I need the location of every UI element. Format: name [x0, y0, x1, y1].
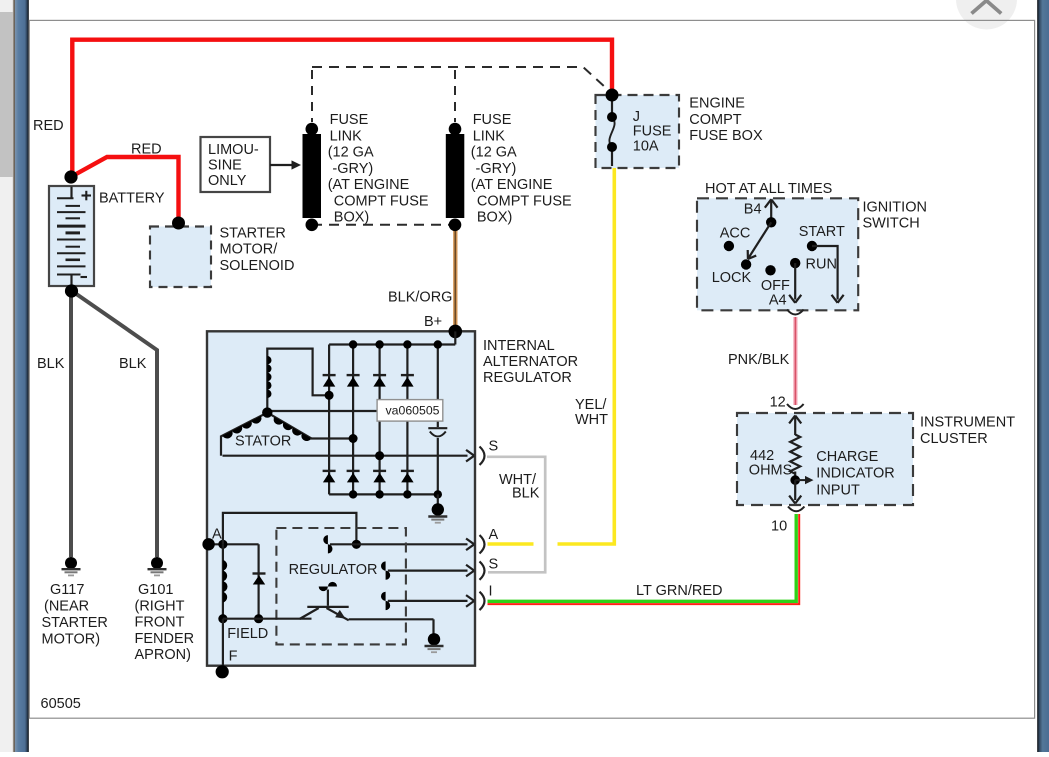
svg-text:COMPT: COMPT — [689, 112, 742, 128]
svg-text:(12 GA: (12 GA — [328, 145, 374, 161]
svg-text:I: I — [489, 584, 493, 600]
svg-text:FRONT: FRONT — [135, 615, 185, 631]
svg-text:IGNITION: IGNITION — [863, 199, 927, 215]
svg-text:10: 10 — [771, 519, 787, 535]
svg-text:FUSE: FUSE — [633, 124, 672, 140]
svg-text:INTERNAL: INTERNAL — [483, 338, 555, 354]
svg-text:ACC: ACC — [720, 226, 751, 242]
svg-text:YEL/: YEL/ — [575, 397, 607, 413]
svg-text:60505: 60505 — [41, 696, 81, 712]
svg-text:MOTOR/: MOTOR/ — [220, 242, 279, 258]
svg-text:STATOR: STATOR — [235, 434, 291, 450]
svg-text:(AT ENGINE: (AT ENGINE — [328, 177, 410, 193]
svg-text:LINK: LINK — [473, 128, 506, 144]
svg-text:BOX): BOX) — [477, 210, 512, 226]
svg-text:HOT AT ALL TIMES: HOT AT ALL TIMES — [705, 181, 832, 197]
svg-text:WHT: WHT — [575, 412, 608, 428]
svg-text:BLK/ORG: BLK/ORG — [388, 290, 452, 306]
svg-text:10A: 10A — [633, 138, 659, 154]
svg-text:BLK: BLK — [119, 356, 147, 372]
svg-text:RUN: RUN — [806, 257, 837, 273]
svg-text:STARTER: STARTER — [42, 615, 108, 631]
svg-text:SWITCH: SWITCH — [863, 216, 920, 232]
svg-text:STARTER: STARTER — [220, 226, 286, 242]
svg-text:FIELD: FIELD — [227, 626, 268, 642]
svg-text:(RIGHT: (RIGHT — [135, 599, 185, 615]
svg-text:BLK: BLK — [37, 356, 65, 372]
svg-text:REGULATOR: REGULATOR — [289, 562, 378, 578]
svg-text:G101: G101 — [138, 582, 173, 598]
svg-text:ALTERNATOR: ALTERNATOR — [483, 354, 578, 370]
svg-text:FUSE BOX: FUSE BOX — [689, 128, 763, 144]
svg-text:A: A — [212, 527, 222, 543]
svg-text:RED: RED — [33, 118, 64, 134]
svg-text:BLK: BLK — [512, 486, 540, 502]
svg-text:(AT ENGINE: (AT ENGINE — [471, 177, 553, 193]
svg-text:S: S — [489, 557, 499, 573]
svg-text:REGULATOR: REGULATOR — [483, 370, 572, 386]
svg-text:BOX): BOX) — [334, 210, 369, 226]
svg-text:INDICATOR: INDICATOR — [816, 466, 894, 482]
svg-text:(NEAR: (NEAR — [44, 599, 89, 615]
svg-text:F: F — [229, 649, 238, 665]
svg-text:RED: RED — [131, 142, 162, 158]
svg-text:B4: B4 — [744, 202, 762, 218]
svg-text:CHARGE: CHARGE — [816, 449, 878, 465]
svg-text:PNK/BLK: PNK/BLK — [728, 352, 790, 368]
svg-text:LINK: LINK — [330, 128, 363, 144]
svg-text:START: START — [799, 224, 845, 240]
svg-text:CLUSTER: CLUSTER — [920, 431, 988, 447]
svg-text:S: S — [489, 439, 499, 455]
svg-text:LIMOU-: LIMOU- — [208, 142, 259, 158]
svg-text:INPUT: INPUT — [816, 483, 860, 499]
svg-text:ENGINE: ENGINE — [689, 96, 745, 112]
svg-text:G117: G117 — [50, 582, 84, 598]
svg-text:OHMS: OHMS — [749, 463, 793, 479]
svg-text:A: A — [489, 527, 499, 543]
svg-text:BATTERY: BATTERY — [99, 191, 165, 207]
svg-text:-GRY): -GRY) — [476, 161, 517, 177]
svg-text:APRON): APRON) — [135, 647, 191, 663]
svg-text:MOTOR): MOTOR) — [42, 632, 101, 648]
svg-text:SINE: SINE — [208, 158, 242, 174]
svg-text:FENDER: FENDER — [135, 631, 195, 647]
svg-text:B+: B+ — [424, 314, 442, 330]
svg-text:COMPT FUSE: COMPT FUSE — [477, 193, 572, 209]
svg-text:va060505: va060505 — [386, 404, 440, 418]
svg-text:SOLENOID: SOLENOID — [220, 258, 295, 274]
svg-text:-GRY): -GRY) — [332, 161, 373, 177]
svg-text:A4: A4 — [769, 293, 787, 309]
svg-text:ONLY: ONLY — [208, 173, 247, 189]
svg-text:(12 GA: (12 GA — [471, 145, 517, 161]
svg-text:12: 12 — [770, 395, 786, 411]
svg-text:LOCK: LOCK — [712, 270, 752, 286]
svg-text:J: J — [633, 109, 640, 125]
svg-text:COMPT FUSE: COMPT FUSE — [334, 193, 429, 209]
svg-text:INSTRUMENT: INSTRUMENT — [920, 415, 1015, 431]
svg-text:FUSE: FUSE — [473, 112, 512, 128]
svg-text:FUSE: FUSE — [330, 112, 369, 128]
svg-text:LT GRN/RED: LT GRN/RED — [636, 583, 722, 599]
